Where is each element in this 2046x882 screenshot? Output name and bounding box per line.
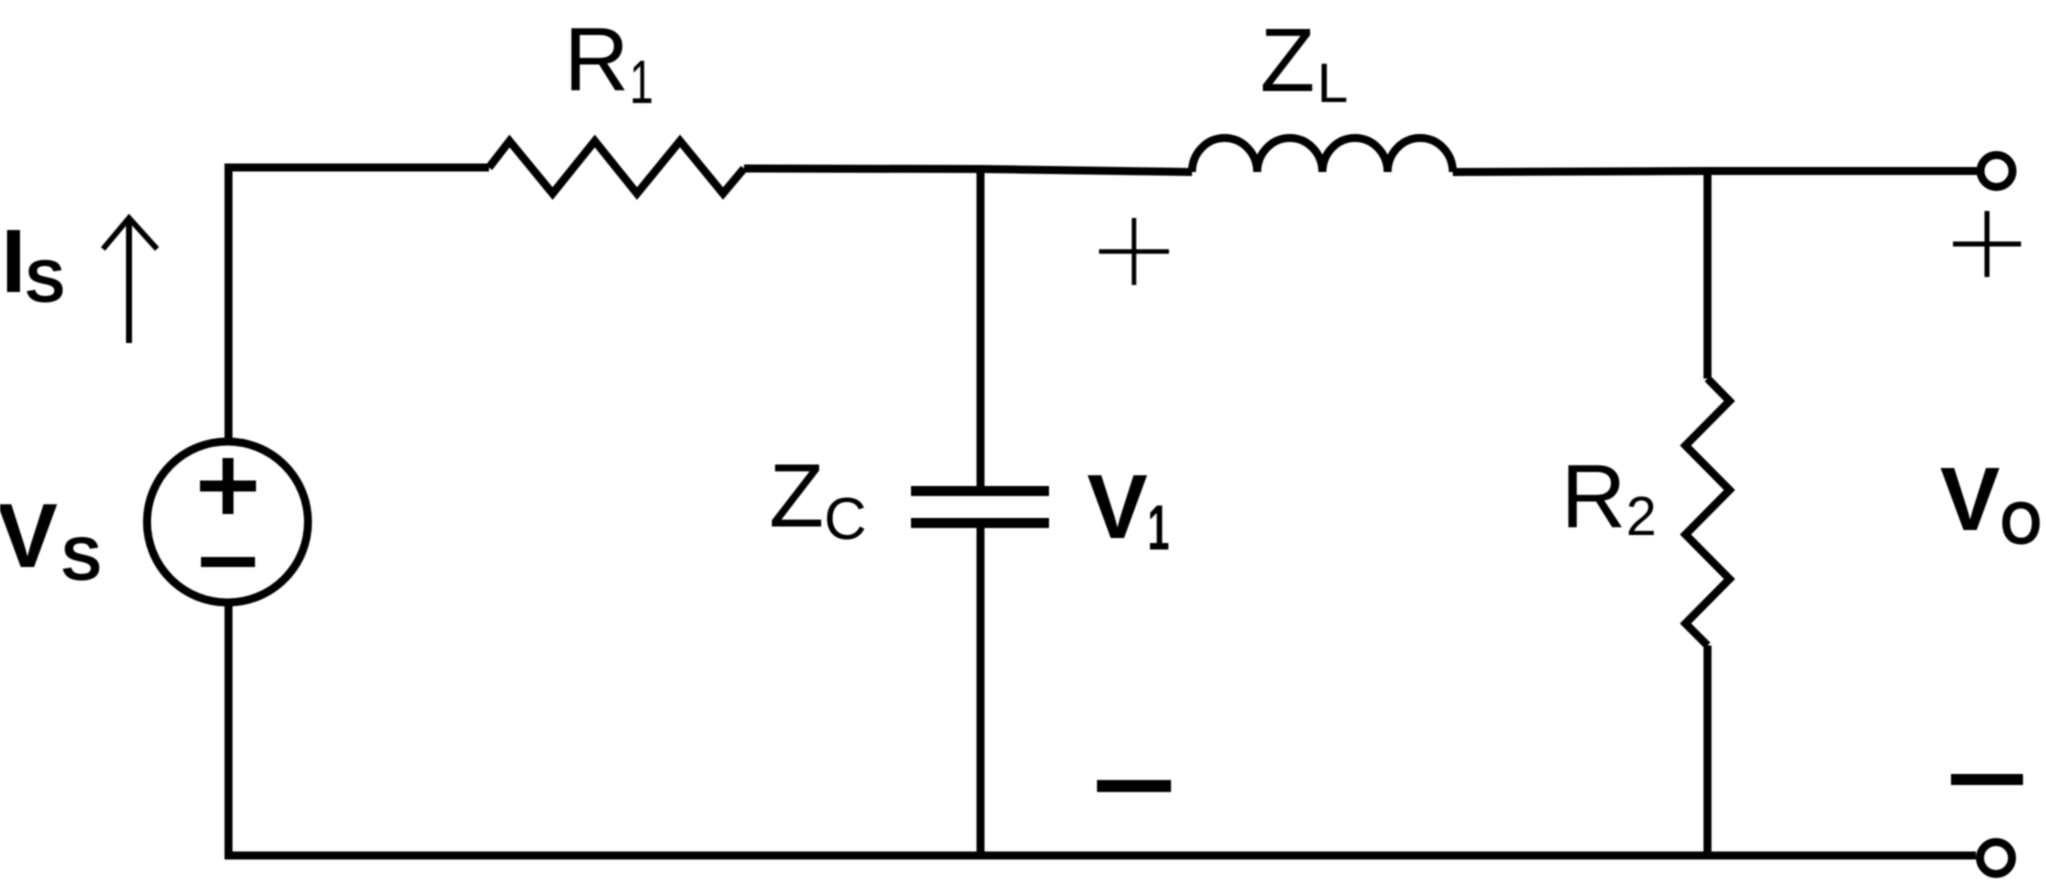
- svg-text:R: R: [1561, 447, 1626, 547]
- svg-text:R: R: [564, 10, 629, 110]
- svg-text:S: S: [61, 525, 102, 593]
- svg-text:Z: Z: [1260, 11, 1315, 111]
- svg-text:Z: Z: [769, 447, 824, 547]
- svg-text:2: 2: [1626, 485, 1657, 547]
- svg-text:S: S: [25, 248, 65, 315]
- svg-text:V: V: [1940, 450, 2000, 550]
- svg-text:V: V: [0, 486, 58, 587]
- svg-text:1: 1: [1148, 492, 1170, 564]
- svg-text:L: L: [1317, 51, 1348, 114]
- svg-text:I: I: [1, 212, 26, 312]
- svg-text:V: V: [1087, 457, 1148, 558]
- svg-text:O: O: [2000, 490, 2042, 557]
- svg-text:1: 1: [630, 48, 654, 116]
- svg-text:C: C: [824, 486, 867, 552]
